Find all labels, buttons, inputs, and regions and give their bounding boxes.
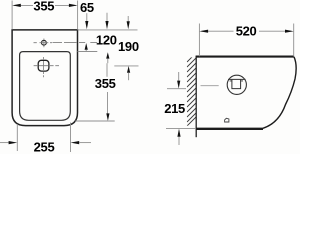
dim 120: upper arrowhead down — [105, 21, 108, 29]
dim 520: right arrowhead — [285, 30, 294, 33]
rim edge extension line to right — [78, 51, 98, 53]
dim 255: right arrowhead left-pointing — [71, 141, 80, 144]
dim 520: left arrowhead — [199, 30, 208, 33]
svg-text:255: 255 — [34, 139, 55, 154]
top dim 355: dimension line — [14, 4, 76, 6]
dim 255: left extension line — [16, 124, 18, 151]
drain hole (rounded square) — [38, 60, 49, 71]
dim 255: left arrowhead right-pointing — [9, 141, 18, 144]
top edge extension line to right — [78, 29, 138, 31]
svg-text:190: 190 — [118, 39, 139, 54]
svg-text:215: 215 — [164, 101, 185, 116]
dim 520: left extension line — [198, 24, 200, 57]
dim 190: upper arrowhead down — [127, 21, 130, 29]
dim 215: top arrowhead down — [177, 81, 180, 89]
drain crosshair horizontal — [34, 65, 59, 67]
dim 355 right: bottom arrowhead down — [106, 113, 109, 121]
side view: small outlet detail on bottom — [225, 118, 229, 122]
top dim 355: right extension line — [77, 1, 79, 30]
bottom front extension line — [75, 120, 114, 122]
svg-text:355: 355 — [95, 76, 116, 91]
dim 355 right: lower line segment — [107, 92, 109, 114]
dim 120: upper arrow tail — [106, 13, 108, 22]
drain crosshair vertical — [43, 57, 45, 77]
dim 215: bottom arrowhead up — [177, 129, 180, 137]
dim 120: lower arrowhead up — [106, 52, 109, 58]
side view: wall face line — [195, 56, 197, 137]
dim 120: lower arrow tail — [107, 59, 109, 64]
side view: drain centerline to wall — [201, 85, 219, 87]
dim 65: lower arrow tail — [85, 50, 87, 52]
dim 190: upper arrow tail — [127, 16, 129, 21]
svg-text:355: 355 — [33, 0, 54, 13]
side view: drain chord line — [228, 78, 246, 80]
faucet hole crosshair horizontal — [34, 42, 53, 44]
dim 65: lower arrowhead up — [85, 43, 88, 50]
svg-text:520: 520 — [236, 23, 257, 38]
dim 190: lower arrow tail — [128, 73, 130, 81]
dim 255: right tail — [79, 142, 91, 144]
top dim 355: left arrowhead — [12, 4, 21, 7]
side view: front curve — [263, 57, 296, 129]
side view: bottom edge — [196, 128, 263, 130]
dim 215: top arrow tail — [178, 72, 180, 81]
side view: drain cup lips — [230, 80, 243, 82]
dim 255: right extension line — [70, 123, 72, 153]
faucet hole circle — [42, 40, 47, 45]
faucet hole crosshair vertical — [43, 39, 45, 48]
plan view: bidet outer outline — [12, 30, 77, 126]
plan view: inner rim outline — [20, 52, 71, 121]
dim 355 right: upper line segment — [106, 63, 108, 77]
top dim 355: right arrowhead — [69, 4, 78, 7]
side view: top edge — [196, 56, 294, 58]
svg-text:65: 65 — [80, 0, 94, 15]
dim 65: upper arrowhead down — [85, 21, 88, 29]
drain centerline extension right segment — [114, 65, 138, 67]
dim 190: lower arrowhead up — [127, 66, 130, 73]
dim 215: top extension line — [167, 88, 186, 90]
faucet centerline extension to right — [53, 42, 98, 44]
side view: drain cup — [232, 80, 241, 89]
side view: drain circle — [227, 75, 246, 94]
top dim 355: left extension line — [11, 1, 13, 30]
dim 65: upper arrow (down) tail — [86, 13, 88, 21]
svg-text:120: 120 — [96, 33, 117, 48]
dim 520: right extension line — [293, 24, 295, 57]
dim 520: dimension line — [202, 30, 292, 32]
dim 215: bottom extension line — [166, 127, 196, 129]
dim 215: bottom arrow tail — [178, 137, 180, 145]
dim 255: left tail — [0, 142, 9, 144]
